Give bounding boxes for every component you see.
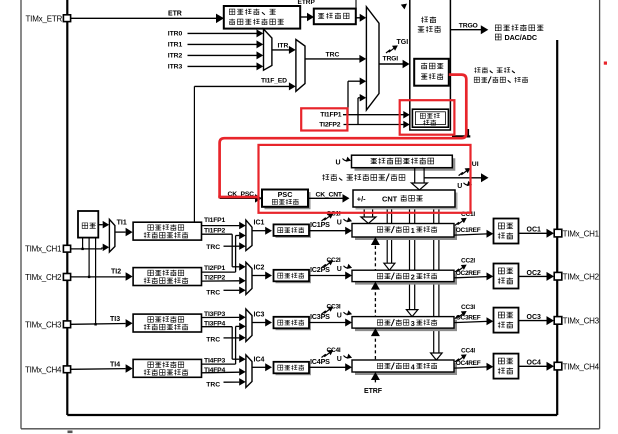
wire TI1FP1 output <box>202 217 246 229</box>
arrow into trigger controller top <box>401 4 407 10</box>
event U into capture/compare 3 <box>337 310 352 319</box>
event arrow UI <box>459 161 479 175</box>
wire OC1REF <box>454 227 493 238</box>
wire IC4 <box>252 356 272 371</box>
svg-text:CNT: CNT <box>382 195 398 204</box>
svg-text:TRC: TRC <box>206 381 220 388</box>
svg-text:TI2FP2: TI2FP2 <box>319 121 341 128</box>
svg-text:IC4PS: IC4PS <box>310 357 330 366</box>
block input filter edge detector CH1 <box>133 222 201 240</box>
timer peripheral boundary box <box>67 0 557 415</box>
event CC1I left <box>322 211 341 222</box>
mux IC4 select <box>246 355 252 388</box>
block slave mode controller <box>414 59 449 86</box>
label reset enable up/down count <box>474 67 528 83</box>
svg-text:4: 4 <box>411 362 415 371</box>
block output control 3 <box>494 308 519 333</box>
event CC3I right <box>455 304 476 319</box>
wire TRGI <box>379 55 410 68</box>
wire IC3 <box>252 312 272 327</box>
svg-text:TI2FP1: TI2FP1 <box>204 265 226 272</box>
block output control 1 <box>494 219 519 244</box>
svg-text:TRC: TRC <box>206 336 220 343</box>
block capture/compare register 2 <box>352 270 457 284</box>
svg-text:OC2REF: OC2REF <box>456 270 481 277</box>
svg-text:CC3I: CC3I <box>461 304 475 311</box>
bus CNT to capture/compare 2 <box>384 207 395 270</box>
svg-text:IC1PS: IC1PS <box>310 220 330 229</box>
wire OC3 <box>519 314 555 325</box>
svg-text:TI4: TI4 <box>110 361 120 368</box>
wire IC1PS <box>309 220 352 235</box>
wire TI3FP4 output crossing down to CH4 mux <box>202 321 246 363</box>
block capture/compare register 3 <box>352 317 457 332</box>
svg-text:U: U <box>457 183 462 190</box>
wire IC2 <box>252 265 272 280</box>
arrow ETRF into capture/compare 2 <box>371 282 380 290</box>
wire TIMx_CH1 to mux <box>71 244 110 252</box>
wire ETRF dashed vertical <box>374 240 376 384</box>
wire TI2FP2 to encoder and trigger mux <box>319 94 410 128</box>
svg-text:TIMx_CH3: TIMx_CH3 <box>563 317 600 326</box>
bus CNT to capture/compare 3 <box>406 207 418 317</box>
mux IC3 select <box>246 309 252 342</box>
svg-text:CC2I: CC2I <box>461 258 475 265</box>
svg-text:IC2: IC2 <box>254 265 265 272</box>
wire ITR1 <box>168 40 263 48</box>
svg-text:TI1FP1: TI1FP1 <box>204 217 226 224</box>
pin TIMx_CH2 output <box>554 272 599 281</box>
block input filter edge detector CH4 <box>133 359 201 377</box>
red highlight box encoder interface <box>400 100 455 135</box>
wire ETRF to trigger mux <box>356 14 366 22</box>
svg-text:UI: UI <box>472 161 479 168</box>
svg-text:TI1: TI1 <box>117 219 127 226</box>
svg-text:TI2: TI2 <box>111 269 121 276</box>
block input filter edge detector CH2 <box>133 268 201 286</box>
svg-text:TIMx_ETR: TIMx_ETR <box>26 14 63 23</box>
event U into capture/compare 2 <box>337 264 352 273</box>
wire TI1 <box>115 219 133 236</box>
svg-text:TI1FP1: TI1FP1 <box>320 112 342 119</box>
wire TI1FP1 to encoder and trigger mux <box>320 78 410 119</box>
wire IC4PS <box>309 357 352 372</box>
svg-text:+/-: +/- <box>357 195 366 204</box>
block input filter <box>314 9 356 25</box>
arrow ETRF into capture/compare 1 <box>371 237 380 245</box>
block PSC prescaler <box>262 190 311 210</box>
mux IC2 select <box>246 262 252 294</box>
wire TI4FP3 output crossing up to CH3 mux <box>202 323 246 365</box>
wire XOR output to TI1 mux <box>98 221 109 229</box>
svg-text:TI3FP3: TI3FP3 <box>204 311 226 318</box>
block prescaler IC2 <box>274 270 312 284</box>
svg-text:TIMx_CH1: TIMx_CH1 <box>563 229 600 238</box>
svg-text:TRC: TRC <box>206 290 220 297</box>
wire ETRP <box>298 0 316 21</box>
event CC1I right <box>455 211 476 226</box>
svg-text:OC4REF: OC4REF <box>456 360 481 367</box>
svg-text:U: U <box>336 159 341 166</box>
svg-text:DAC/ADC: DAC/ADC <box>505 33 537 42</box>
mux TRGI select <box>366 7 379 110</box>
event CC2I left <box>322 257 341 268</box>
bus ARR to CNT <box>411 168 427 190</box>
block prescaler IC3 <box>274 317 312 331</box>
arrow ETRF into capture/compare 3 <box>371 328 380 336</box>
event U into capture/compare 1 <box>337 217 352 226</box>
wire TRC stub CH1 <box>206 242 246 250</box>
wire CK_CNT <box>308 191 350 202</box>
wire OC1 <box>519 227 555 238</box>
svg-text:TRC: TRC <box>326 51 340 58</box>
wire TRC stub CH3 <box>206 334 246 344</box>
block output control 2 <box>494 264 519 289</box>
wire IC1 <box>252 220 272 235</box>
mux internal trigger select <box>264 29 272 70</box>
svg-text:IC3: IC3 <box>254 312 265 319</box>
svg-text:ITR: ITR <box>278 43 289 50</box>
mux TRC select <box>296 40 305 92</box>
block CNT counter <box>353 190 458 210</box>
block encoder interface <box>412 109 448 127</box>
svg-text:TRGI: TRGI <box>383 55 399 62</box>
svg-text:TIMx_CH2: TIMx_CH2 <box>563 272 600 281</box>
svg-text:U: U <box>337 266 342 273</box>
svg-text:TRGO: TRGO <box>459 23 478 30</box>
svg-text:ITR2: ITR2 <box>168 52 183 59</box>
event CC4I right <box>455 348 476 363</box>
wire TI2FP2 output <box>202 275 246 285</box>
wire XOR inputs from CH1 CH2 CH3 <box>81 238 96 326</box>
mux IC1 select <box>246 220 252 250</box>
wire IC2PS <box>309 265 352 280</box>
wire OC3REF <box>454 315 493 326</box>
svg-text:IC4: IC4 <box>254 356 265 363</box>
svg-text:ETRP: ETRP <box>298 0 316 6</box>
svg-text:U: U <box>337 313 342 320</box>
wire TI3 <box>71 316 133 327</box>
svg-text:OC1REF: OC1REF <box>456 227 481 234</box>
pin TIMx_CH2 <box>25 273 71 282</box>
svg-text:ITR0: ITR0 <box>168 30 183 37</box>
wire TRC <box>305 51 366 63</box>
svg-text:U: U <box>337 220 342 227</box>
wire TI1F_ED <box>194 78 295 222</box>
svg-text:IC3PS: IC3PS <box>310 312 330 321</box>
wire OC4REF <box>454 360 493 371</box>
wire TI2 <box>71 269 133 281</box>
svg-text:ETRF: ETRF <box>364 388 383 395</box>
event U into ARR <box>336 157 352 167</box>
wire ITR <box>272 43 296 54</box>
svg-text:TIMx_CH4: TIMx_CH4 <box>25 365 62 374</box>
label to other timers / to DAC ADC <box>495 24 543 41</box>
block output control 4 <box>494 354 519 379</box>
wire TRC stub CH4 <box>206 378 246 388</box>
svg-text:IC1: IC1 <box>254 220 265 227</box>
svg-text:TI3: TI3 <box>110 316 120 323</box>
caption fragment tick <box>68 431 73 434</box>
red highlight wire slave controller to clock <box>218 75 470 198</box>
svg-text:CK_CNT: CK_CNT <box>316 191 343 198</box>
bus CNT to capture/compare 4 <box>431 207 443 360</box>
svg-text:PSC: PSC <box>278 190 293 199</box>
svg-text:1: 1 <box>411 226 415 235</box>
svg-text:2: 2 <box>411 273 415 282</box>
wire CK_PSC <box>220 191 262 202</box>
wire ITR0 <box>168 29 263 37</box>
pin TIMx_ETR <box>26 14 71 23</box>
block input filter edge detector CH3 <box>133 314 201 332</box>
svg-text:ITR1: ITR1 <box>168 41 183 48</box>
svg-text:TIMx_CH3: TIMx_CH3 <box>25 320 62 329</box>
block XOR <box>78 211 98 238</box>
mux TI1 select (CH1/XOR) <box>109 219 115 252</box>
wire TRC stub CH2 <box>206 287 246 297</box>
wire OC4 <box>519 360 555 371</box>
event U into capture/compare 4 <box>337 354 352 363</box>
wire IC3PS <box>309 312 352 327</box>
svg-text:TI4FP3: TI4FP3 <box>204 357 226 364</box>
block trigger controller <box>410 0 451 130</box>
block prescaler IC1 <box>274 224 312 238</box>
svg-text:CC4I: CC4I <box>461 348 475 355</box>
red highlight box counter core <box>259 145 471 213</box>
red highlight box TI1FP1 TI2FP2 <box>301 108 347 130</box>
red dot <box>604 62 607 65</box>
pin TIMx_CH1 output <box>554 229 599 238</box>
pin TIMx_CH4 <box>25 365 71 374</box>
svg-text:TIMx_CH1: TIMx_CH1 <box>25 245 62 254</box>
pin TIMx_CH3 output <box>554 317 599 326</box>
wire TI4FP4 output <box>202 367 246 376</box>
pin TIMx_CH1 <box>25 245 71 254</box>
wire OC2 <box>519 270 555 281</box>
label ETRF <box>364 388 383 395</box>
wire stub above input filter <box>355 0 357 9</box>
event CC2I right <box>455 258 476 273</box>
event U near CNT <box>457 181 472 190</box>
svg-text:TGI: TGI <box>397 39 409 46</box>
wire TI4 <box>71 361 133 373</box>
wire ITR3 <box>168 62 263 70</box>
svg-text:ETR: ETR <box>168 11 182 18</box>
wire TI3FP3 output <box>202 311 246 321</box>
block prescaler IC4 <box>274 362 312 376</box>
wire TRGO <box>450 23 488 35</box>
block polarity selection edge detector prescaler <box>224 6 300 29</box>
event CC3I left <box>322 304 341 315</box>
svg-text:TIMx_CH4: TIMx_CH4 <box>563 362 600 371</box>
event CC4I left <box>322 347 341 358</box>
event arrow TGI <box>386 39 408 53</box>
wire OC2REF <box>454 270 493 281</box>
svg-text:3: 3 <box>411 319 415 328</box>
svg-text:U: U <box>337 356 342 363</box>
svg-text:TI1F_ED: TI1F_ED <box>261 78 287 85</box>
pin TIMx_CH4 output <box>554 362 599 371</box>
label stop clear or up/down <box>322 174 405 182</box>
wire ITR2 <box>168 51 263 59</box>
wire U event to right <box>424 173 488 182</box>
svg-text:ITR3: ITR3 <box>168 63 183 70</box>
pin TIMx_CH3 <box>25 320 71 329</box>
svg-text:TIMx_CH2: TIMx_CH2 <box>25 273 62 282</box>
wire TI1FP2 output crossing down to CH2 <box>202 228 246 271</box>
svg-text:TRC: TRC <box>206 244 220 251</box>
svg-text:OC3REF: OC3REF <box>456 315 481 322</box>
arrow ETRF into capture/compare 4 <box>371 372 380 380</box>
block capture/compare register 4 <box>352 360 457 375</box>
wire ETR <box>71 11 224 24</box>
wire TI2FP1 output crossing up to CH1 mux <box>202 232 246 272</box>
bus CNT to capture/compare 1 <box>361 207 376 224</box>
svg-text:IC2PS: IC2PS <box>310 265 330 274</box>
block auto-reload register ARR <box>352 155 456 171</box>
block capture/compare register 1 <box>352 224 457 241</box>
